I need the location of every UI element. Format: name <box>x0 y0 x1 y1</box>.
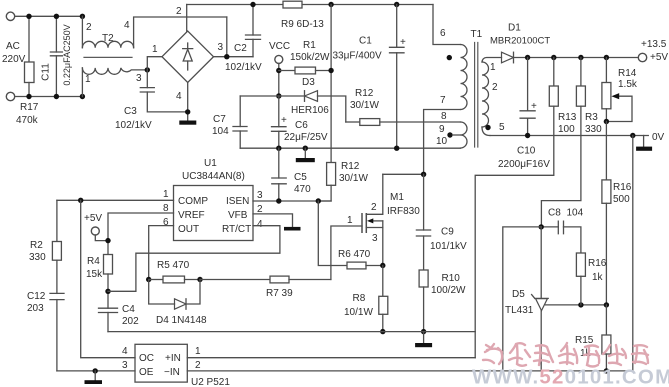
wire bridge pin3 row <box>214 56 254 58</box>
svg-text:0V: 0V <box>652 132 665 143</box>
svg-text:4: 4 <box>122 346 128 357</box>
svg-text:MBR20100CT: MBR20100CT <box>490 36 550 47</box>
svg-text:R2: R2 <box>30 240 43 251</box>
svg-text:+13.5: +13.5 <box>641 39 667 50</box>
diode D4 1N4148 (parallel loop) <box>149 280 200 305</box>
resistor R15 1k <box>605 305 607 335</box>
potentiometer R14 1.5k <box>604 55 609 60</box>
svg-text:102/1kV: 102/1kV <box>115 120 152 131</box>
svg-text:C11: C11 <box>41 63 52 81</box>
wire C8 node to U2 +IN vertical <box>503 227 541 371</box>
svg-text:1: 1 <box>152 44 158 55</box>
wire bridge pin4 down <box>187 82 189 120</box>
svg-text:101/1kV: 101/1kV <box>430 241 467 252</box>
wire VREF pin8 row <box>108 213 174 255</box>
choke T2 lower winding <box>81 68 83 97</box>
wire ISEN to R6 <box>318 201 347 266</box>
svg-text:30/1W: 30/1W <box>350 100 379 111</box>
svg-text:470: 470 <box>294 184 311 195</box>
svg-text:U2 P521: U2 P521 <box>191 377 230 387</box>
svg-text:R17: R17 <box>20 102 39 113</box>
svg-text:−IN: −IN <box>164 367 180 378</box>
diode D1 MBR20100CT <box>502 52 514 63</box>
capacitor C4 202 <box>99 308 118 312</box>
wire primary ground row y148 <box>240 147 460 149</box>
svg-text:RT/CT: RT/CT <box>222 224 251 235</box>
IC U1 UC3844AN(8) box <box>174 186 254 241</box>
capacitor C2 <box>252 5 254 36</box>
capacitor C6 22uF/25V <box>278 96 280 127</box>
svg-text:R3: R3 <box>585 112 598 123</box>
svg-text:1.5k: 1.5k <box>618 79 638 90</box>
wire bridge pin2 to DC rail <box>186 5 188 32</box>
svg-text:R16: R16 <box>613 182 632 193</box>
svg-text:7: 7 <box>440 95 446 106</box>
svg-text:T1: T1 <box>471 29 483 40</box>
capacitor C7 <box>240 95 279 97</box>
wire U2 pin2 -IN row <box>187 370 633 372</box>
ground bar (bridge negative) <box>179 121 196 125</box>
resistor R10 100/2W <box>423 236 425 270</box>
svg-text:2: 2 <box>176 6 182 17</box>
svg-text:R15: R15 <box>575 335 594 346</box>
wire primary ground rail <box>108 331 475 333</box>
capacitor C8 104 <box>541 226 558 228</box>
svg-text:3: 3 <box>372 233 378 244</box>
resistor R1 150k/2W <box>279 70 295 72</box>
svg-text:R6 470: R6 470 <box>338 249 371 260</box>
svg-text:+: + <box>400 37 406 48</box>
capacitor C12 203 <box>50 293 64 299</box>
svg-text:C3: C3 <box>124 106 137 117</box>
svg-text:10/1W: 10/1W <box>344 307 373 318</box>
resistor R12 (horizontal 30/1W) + T1 pin8 wire <box>346 121 360 123</box>
svg-text:C6: C6 <box>295 120 308 131</box>
T1 core <box>475 43 478 148</box>
svg-text:IRF830: IRF830 <box>387 206 420 217</box>
wire T2 pin4 vertical to bridge pin3 <box>226 17 228 57</box>
svg-text:8: 8 <box>441 111 447 122</box>
wire 0V rail <box>490 135 648 137</box>
wire U2 pin4 OC to COMP <box>81 200 135 357</box>
svg-text:OC: OC <box>139 353 154 364</box>
svg-text:1: 1 <box>85 74 91 85</box>
resistor R8 10/1W <box>382 266 384 297</box>
terminal AC live <box>6 12 14 20</box>
svg-text:C4: C4 <box>122 304 135 315</box>
svg-text:2200μF16V: 2200μF16V <box>498 159 550 170</box>
T1 primary phasing dot <box>447 55 452 60</box>
svg-text:3: 3 <box>257 190 263 201</box>
svg-text:R8: R8 <box>353 293 366 304</box>
capacitor C5 <box>278 148 280 178</box>
node T2 pin1 <box>80 94 85 99</box>
svg-text:COMP: COMP <box>178 196 208 207</box>
svg-text:15k: 15k <box>86 269 103 280</box>
svg-text:D1: D1 <box>508 23 521 34</box>
svg-text:C5: C5 <box>294 172 307 183</box>
svg-text:C2: C2 <box>234 43 247 54</box>
svg-text:+IN: +IN <box>165 353 181 364</box>
svg-text:VFB: VFB <box>228 210 248 221</box>
T1 secondary pin5 phasing dot <box>485 125 490 130</box>
svg-text:D4 1N4148: D4 1N4148 <box>156 315 207 326</box>
svg-text:1: 1 <box>347 215 353 226</box>
resistor R16 500 <box>605 122 607 180</box>
svg-text:5: 5 <box>499 122 505 133</box>
svg-text:104: 104 <box>212 126 229 137</box>
svg-text:UC3844AN(8): UC3844AN(8) <box>182 171 245 182</box>
wire top AC rail <box>15 15 83 17</box>
svg-text:R5 470: R5 470 <box>157 260 190 271</box>
svg-text:102/1kV: 102/1kV <box>225 62 262 73</box>
svg-text:203: 203 <box>27 303 44 314</box>
bridge internal diode <box>183 43 193 70</box>
resistor R13 100 <box>551 55 556 60</box>
resistor R2 330 <box>56 200 58 241</box>
choke T2 core <box>84 56 132 58</box>
shunt D5 TL431 <box>540 227 542 299</box>
svg-text:10: 10 <box>436 136 448 147</box>
svg-text:500: 500 <box>613 194 630 205</box>
svg-text:220V: 220V <box>2 54 26 65</box>
node C11 bottom <box>54 94 59 99</box>
resistor R4 15k <box>104 255 113 275</box>
svg-text:R1: R1 <box>303 40 316 51</box>
svg-text:R4: R4 <box>87 256 100 267</box>
wire OUT pin6 to R5 loop <box>149 226 174 280</box>
svg-text:104: 104 <box>567 208 584 219</box>
capacitor C1 33uF/400V <box>394 2 399 7</box>
svg-text:R14: R14 <box>618 68 637 79</box>
wire T2 pin3 to bridge node <box>145 67 150 72</box>
wire COMP pin1 row <box>57 199 174 201</box>
svg-text:100/2W: 100/2W <box>431 285 466 296</box>
svg-text:470k: 470k <box>16 115 39 126</box>
svg-text:OE: OE <box>139 367 154 378</box>
wire RT/CT pin4 jog to R4/C4 node <box>108 226 280 292</box>
svg-text:2: 2 <box>195 360 201 371</box>
svg-text:3: 3 <box>136 73 142 84</box>
choke T2 upper winding <box>81 16 83 47</box>
svg-text:T2: T2 <box>102 33 114 44</box>
svg-text:3: 3 <box>218 42 224 53</box>
svg-text:1: 1 <box>163 189 169 200</box>
svg-text:2: 2 <box>371 202 377 213</box>
svg-text:R12: R12 <box>355 88 374 99</box>
svg-text:2: 2 <box>492 82 498 93</box>
wire bottom AC rail <box>15 96 83 98</box>
svg-text:U1: U1 <box>204 158 217 169</box>
ground bar (0V output) <box>643 136 645 147</box>
svg-text:150k/2W: 150k/2W <box>290 52 330 63</box>
svg-text:C12: C12 <box>27 291 46 302</box>
wire feedback 0V vertical <box>632 136 634 371</box>
svg-text:C8: C8 <box>548 208 561 219</box>
svg-text:6: 6 <box>163 217 169 228</box>
terminal AC neutral <box>6 92 14 100</box>
svg-text:4: 4 <box>257 219 263 230</box>
svg-text:30/1W: 30/1W <box>339 173 368 184</box>
wire gate lead <box>331 226 362 280</box>
transistor M1 IRF830 <box>361 213 363 233</box>
svg-text:C10: C10 <box>517 146 536 157</box>
wire TL431 ref row <box>546 304 607 306</box>
resistor R9 (on DC rail) <box>283 1 302 8</box>
svg-text:TL431: TL431 <box>505 305 534 316</box>
svg-text:+: + <box>531 101 537 112</box>
wire DC+ top rail <box>187 4 433 6</box>
diode D3 HER106 <box>276 93 281 98</box>
svg-text:4: 4 <box>176 91 182 102</box>
ground bar (primary rail) <box>423 332 425 343</box>
svg-text:9: 9 <box>439 124 445 135</box>
svg-text:WWW.520101.COM: WWW.520101.COM <box>472 366 669 387</box>
wire drain row to T1 pin7 <box>383 173 424 175</box>
svg-text:D3: D3 <box>302 77 315 88</box>
svg-text:330: 330 <box>585 124 602 135</box>
node C11 top <box>54 14 59 19</box>
resistor R6 470 <box>347 262 366 269</box>
ground bar (U2 pin3) <box>94 371 96 380</box>
wire ISEN pin3 row <box>253 200 331 202</box>
capacitor C11 <box>55 16 57 52</box>
node rail-R1 vertical x331 <box>328 2 333 7</box>
svg-text:R13: R13 <box>558 112 577 123</box>
svg-text:22μF/25V: 22μF/25V <box>284 132 328 143</box>
svg-text:C7: C7 <box>213 114 226 125</box>
node R17 top <box>26 14 31 19</box>
capacitor C10 2200uF16V <box>525 55 530 60</box>
svg-text:100: 100 <box>558 124 575 135</box>
optocoupler U2 P521 box <box>135 344 187 382</box>
svg-text:202: 202 <box>122 316 139 327</box>
T1 aux winding 8-9-10 <box>461 122 468 148</box>
svg-text:1: 1 <box>195 346 201 357</box>
terminal +13.5/+5V <box>638 53 646 61</box>
resistor R5 470 <box>146 277 151 282</box>
T1 aux pin9 phasing dot <box>447 132 452 137</box>
svg-text:2: 2 <box>86 22 92 33</box>
capacitor C9 101/1kV <box>423 174 425 230</box>
T1 primary winding 6-7 <box>433 5 461 45</box>
svg-text:+: + <box>281 115 287 126</box>
svg-text:OUT: OUT <box>178 224 199 235</box>
svg-text:M1: M1 <box>390 192 404 203</box>
svg-text:4: 4 <box>124 20 130 31</box>
node R17 bottom <box>26 94 31 99</box>
wire U2 pin1 +IN row <box>187 357 475 359</box>
svg-text:ISEN: ISEN <box>226 196 249 207</box>
svg-text:0.22μFAC250V: 0.22μFAC250V <box>62 24 72 85</box>
svg-text:6: 6 <box>440 28 446 39</box>
resistor R7 39 <box>200 279 270 281</box>
T1 secondary winding <box>482 58 502 63</box>
svg-text:1k: 1k <box>592 272 604 283</box>
resistor R17 <box>28 16 30 62</box>
wire U2 pin3 OE row <box>57 370 135 372</box>
svg-text:R7 39: R7 39 <box>266 288 293 299</box>
svg-text:R9 6D-13: R9 6D-13 <box>281 19 324 30</box>
node T2 pin2 <box>80 14 85 19</box>
wire VFB pin2 to ground bar <box>253 214 293 227</box>
watermark chinese calligraphy (decorative) <box>483 343 648 367</box>
svg-text:R12: R12 <box>341 161 360 172</box>
svg-text:AC: AC <box>6 41 20 52</box>
svg-text:VCC: VCC <box>269 41 290 52</box>
svg-text:C1: C1 <box>359 36 372 47</box>
svg-text:330: 330 <box>29 252 46 263</box>
svg-text:C9: C9 <box>441 227 454 238</box>
resistor R3 330 <box>578 55 583 60</box>
svg-text:+5V: +5V <box>650 52 668 63</box>
resistor R12 (vertical 30/1W) <box>327 163 336 186</box>
svg-text:HER106: HER106 <box>291 105 329 116</box>
svg-text:D5: D5 <box>512 289 525 300</box>
bridge rectifier diamond <box>162 31 214 82</box>
resistor R16 1k <box>576 253 585 276</box>
svg-text:+5V: +5V <box>84 213 102 224</box>
svg-text:1: 1 <box>490 62 496 73</box>
svg-text:R10: R10 <box>442 273 461 284</box>
svg-text:3: 3 <box>122 360 128 371</box>
capacitor C3 <box>146 70 148 88</box>
svg-text:VREF: VREF <box>178 210 205 221</box>
ground bar (C6 node) <box>304 148 306 158</box>
svg-text:33μF/400V: 33μF/400V <box>333 51 382 62</box>
svg-text:R16: R16 <box>588 258 607 269</box>
